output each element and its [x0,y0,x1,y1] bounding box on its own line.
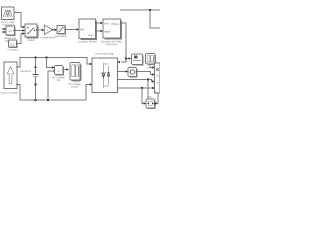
wire pulses to bridge g [118,23,126,63]
gain label [40,35,56,39]
svg-text:0.1: 0.1 [10,43,15,47]
switch label [27,38,35,42]
meter2 block [146,99,156,109]
dc voltage scope label [68,82,81,89]
junction plus rail voltmeter [46,57,48,59]
wire relational to switch [15,29,26,32]
wire voltmeter to scope [63,68,69,71]
svg-text:Vdc: Vdc [56,78,61,82]
junction phase c [141,87,143,89]
modified spwm label [78,39,97,43]
dc minus rail [17,85,90,101]
grid label [154,91,158,94]
capacitor label [20,69,31,73]
scope2 block [146,54,157,65]
relational operator block [6,26,16,36]
relational operator label [4,36,16,43]
modified spwm subsystem [79,19,97,40]
svg-text:angle: angle [104,30,111,33]
voltage measurement block [55,66,65,76]
saturation block [57,26,66,35]
svg-text:Universal Bridge: Universal Bridge [95,52,115,56]
scope1 label [129,65,137,69]
saturation label [55,34,67,38]
svg-text:sPa: sPa [80,28,85,31]
wire scope2 to grid port1 [150,64,155,69]
boost converter block [4,62,18,89]
grid block [155,63,160,93]
universal bridge label [95,52,115,56]
dc plus rail [17,58,90,68]
wire saturation to spwm subsystem [65,28,79,31]
wire meter2 out up [155,94,159,105]
svg-text:>=: >= [8,29,12,33]
junction minus rail capacitor [35,99,37,101]
bridge left port plus [90,63,93,66]
wire plus rail to voltmeter [47,58,55,69]
svg-text:Pulses: Pulses [111,23,119,26]
relational operator input stubs [2,28,7,33]
scope2 label [148,65,154,69]
junction phase b [147,79,149,81]
bridge left port minus [90,83,93,86]
phase a wire bridge to ammeter [118,70,129,73]
fuzzy logic controller block [2,7,15,20]
svg-text:Saturation: Saturation [55,34,67,38]
svg-text:Constant: Constant [7,48,18,52]
wire constant to switch [17,32,26,43]
discrete sv pwm generator block [103,19,122,40]
svg-text:Capacitor: Capacitor [20,69,31,73]
svg-text:Scope: Scope [71,85,79,89]
current measurement label [131,78,135,81]
wire switch to gain [37,29,44,32]
junction minus rail voltmeter [47,99,49,101]
wire phase b to meter2 top [147,80,149,100]
junction plus rail capacitor [35,57,37,59]
wire phase c to meter2 [142,88,146,105]
top right wire net [120,9,160,28]
current measurement block [128,68,138,78]
meter2 label [147,96,152,99]
svg-text:boost converter: boost converter [0,91,18,95]
svg-text:Switch: Switch [27,38,35,42]
phase b wire bridge to grid [118,80,155,83]
constant label [7,48,18,52]
wire spwm out2 to pwm angle [96,30,104,33]
wire gain to saturation [53,29,57,32]
dc voltage scope block [70,63,81,82]
constant block [9,40,18,48]
universal bridge block [92,58,118,93]
phase a wire ammeter to grid [136,71,155,76]
boost converter label [0,91,18,95]
svg-text:Sout: Sout [88,34,93,37]
pwm generator label [101,39,122,46]
phase c wire bridge to grid [118,87,155,90]
capacitor branch [33,58,39,101]
scope1 block [132,54,144,66]
svg-text:modified SPWM: modified SPWM [78,39,97,43]
junction pulses to scope1 [125,57,131,60]
svg-text:Generator: Generator [106,42,118,46]
wire fuzzy to switch [14,12,25,29]
voltage measurement label [52,75,66,82]
wire spwm out1 to pwm uref [96,22,104,25]
svg-text:Vab: Vab [147,96,152,99]
gain block [44,25,53,35]
svg-text:normalization: normalization [40,35,56,39]
svg-text:Uref: Uref [104,22,109,25]
wire voltmeter minus down [48,70,55,100]
switch block [25,24,39,39]
fuzzy label [1,20,16,27]
